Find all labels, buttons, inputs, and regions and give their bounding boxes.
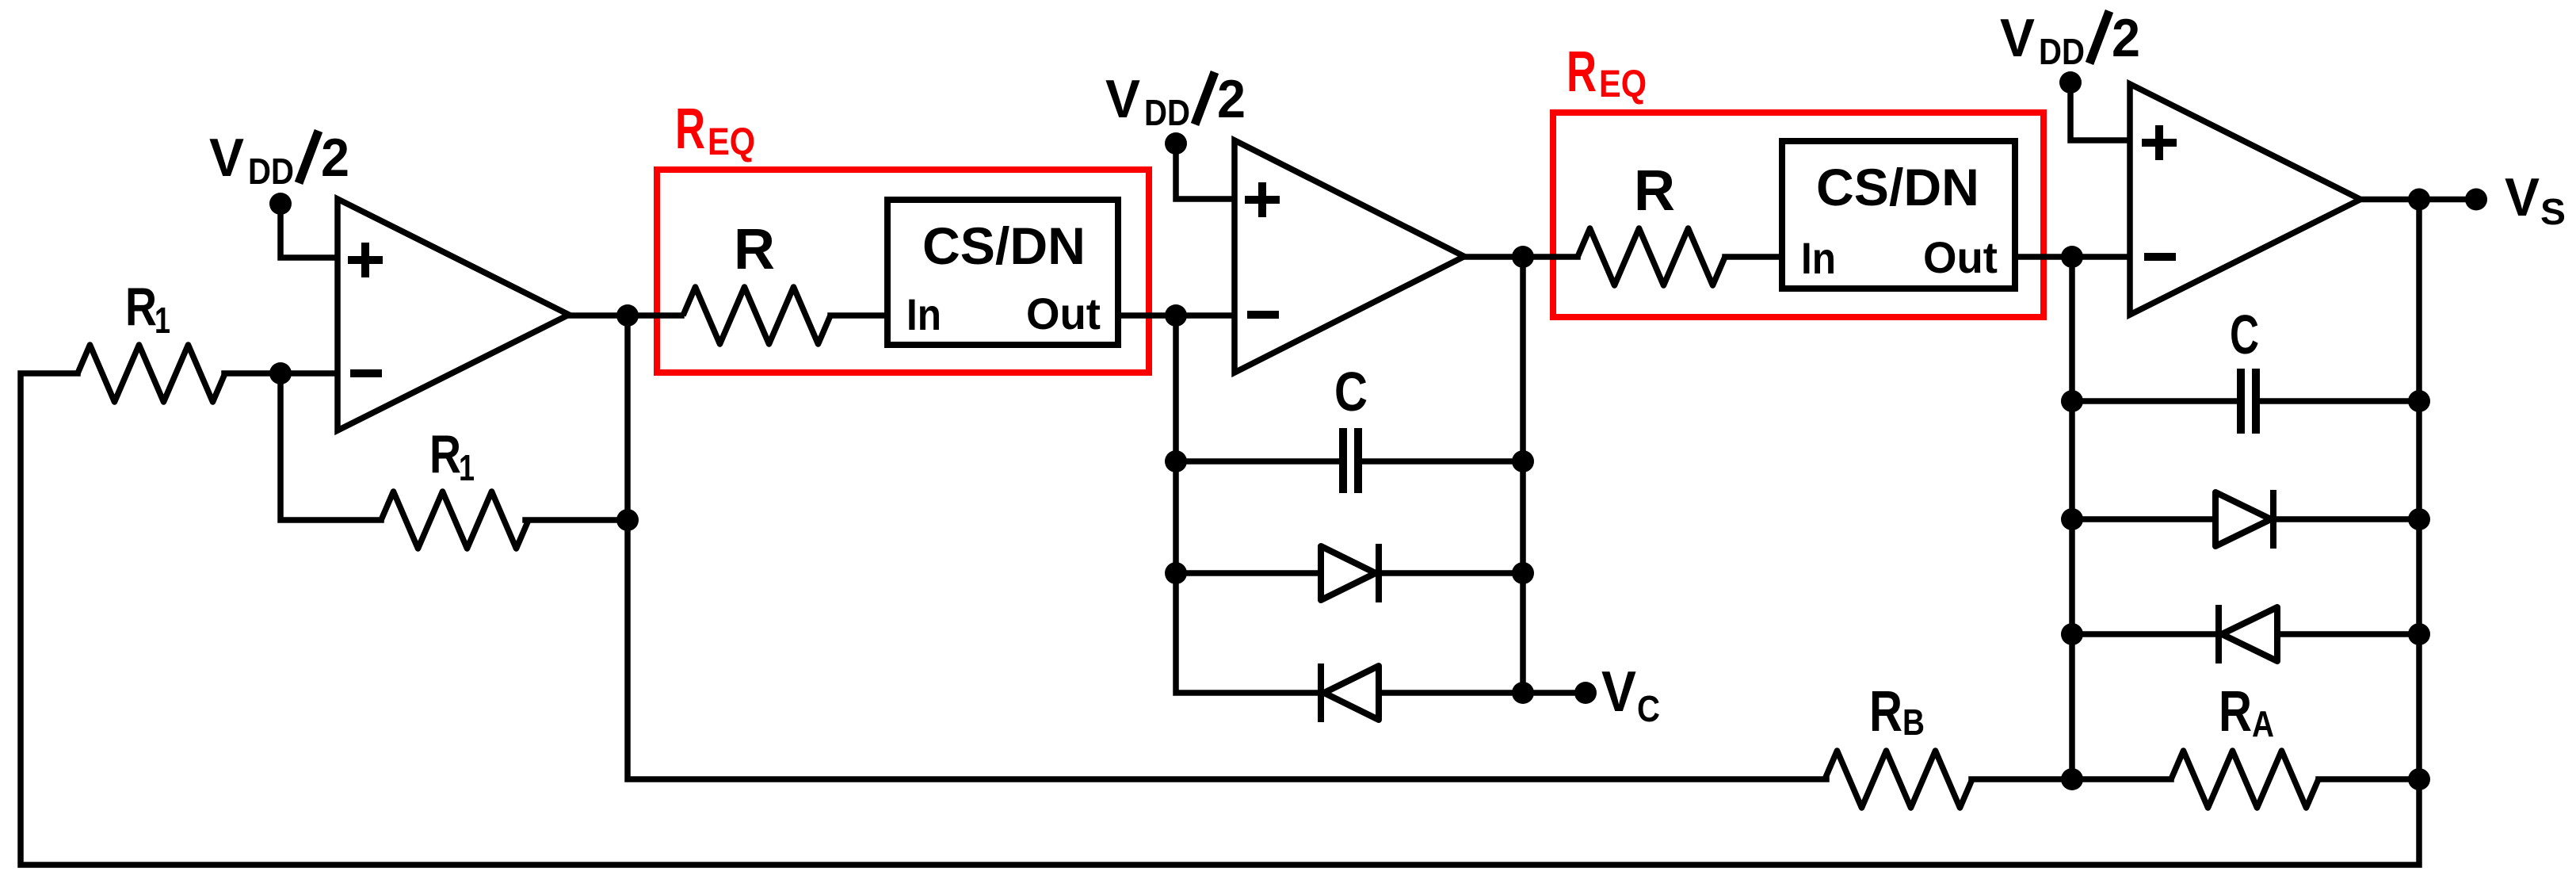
svg-text:C: C <box>1637 688 1660 729</box>
svg-text:1: 1 <box>459 447 475 488</box>
svg-text:V: V <box>1601 660 1636 724</box>
svg-text:V: V <box>1105 69 1140 129</box>
svg-text:R: R <box>675 98 705 161</box>
svg-text:DD: DD <box>2039 31 2085 72</box>
svg-text:C: C <box>1334 361 1368 423</box>
svg-text:EQ: EQ <box>708 121 755 163</box>
svg-text:R: R <box>734 218 775 281</box>
svg-text:R: R <box>429 424 461 484</box>
svg-text:V: V <box>2000 8 2035 68</box>
svg-text:R: R <box>125 277 157 337</box>
svg-text:Out: Out <box>1923 232 1998 282</box>
svg-text:CS/DN: CS/DN <box>922 216 1086 275</box>
svg-text:2: 2 <box>1217 69 1246 129</box>
svg-text:Out: Out <box>1026 289 1101 338</box>
svg-text:V: V <box>2505 167 2540 228</box>
svg-text:DD: DD <box>1144 92 1190 133</box>
svg-text:2: 2 <box>321 128 349 188</box>
svg-text:R: R <box>1634 159 1675 223</box>
svg-text:S: S <box>2540 191 2566 232</box>
svg-text:R: R <box>1567 40 1597 104</box>
svg-text:1: 1 <box>155 300 170 341</box>
svg-text:R: R <box>2219 680 2252 744</box>
svg-text:In: In <box>1801 233 1836 283</box>
svg-text:2: 2 <box>2112 8 2140 68</box>
svg-text:In: In <box>906 289 941 339</box>
svg-text:R: R <box>1869 680 1902 744</box>
svg-text:A: A <box>2252 703 2274 744</box>
svg-text:C: C <box>2230 304 2259 365</box>
svg-text:V: V <box>209 128 244 188</box>
svg-text:EQ: EQ <box>1599 63 1647 105</box>
svg-text:DD: DD <box>248 151 294 192</box>
svg-text:B: B <box>1902 702 1925 743</box>
svg-text:CS/DN: CS/DN <box>1816 158 1979 216</box>
